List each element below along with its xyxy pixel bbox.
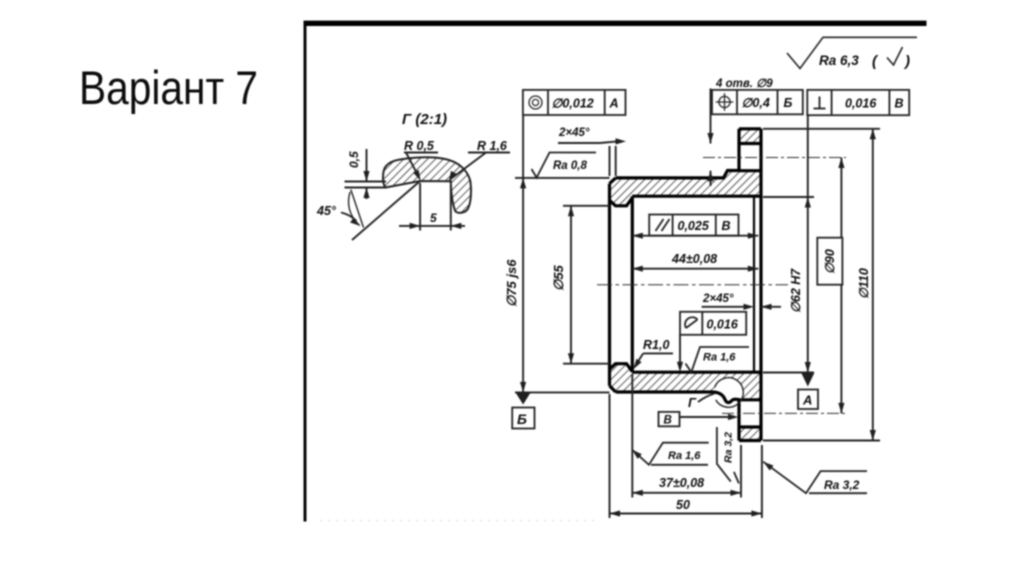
svg-text:37±0,08: 37±0,08 bbox=[659, 476, 704, 490]
dim Ø55 bbox=[563, 205, 610, 207]
svg-text:Ra 0,8: Ra 0,8 bbox=[553, 160, 587, 172]
bore Ø55 top edge with entry chamfers bbox=[610, 198, 633, 206]
bolt hole Ø9 dim arrows bbox=[710, 89, 712, 144]
datum Б triangle and box bbox=[516, 393, 531, 405]
roughness Ra 3,2 bottom right bbox=[761, 459, 773, 470]
svg-text:∅75 js6: ∅75 js6 bbox=[504, 259, 519, 307]
bolt hole bottom axis bbox=[722, 412, 846, 414]
main section hatched flange top strip bbox=[739, 129, 761, 144]
svg-text:45°: 45° bbox=[316, 204, 337, 218]
svg-text:5: 5 bbox=[430, 211, 437, 225]
svg-text:Г: Г bbox=[688, 395, 697, 410]
svg-text:∅110: ∅110 bbox=[857, 268, 871, 299]
dim Ø62 H7 with datum A bbox=[763, 196, 814, 198]
dim 50 bbox=[609, 394, 611, 518]
bolt hole bottom edges bbox=[739, 398, 761, 401]
bore Ø55 bottom edge with entry chamfers bbox=[610, 364, 633, 372]
svg-text:B: B bbox=[895, 97, 904, 111]
svg-text:(: ( bbox=[872, 53, 879, 70]
part outline bottom groove profile bbox=[712, 392, 739, 403]
detail 5 dimension bbox=[419, 183, 421, 231]
general roughness Ra 6,3 top right bbox=[787, 37, 917, 68]
tolerance frame parallelism 0,025 B bbox=[649, 215, 738, 236]
svg-text:A: A bbox=[802, 393, 812, 408]
svg-text:∅90: ∅90 bbox=[823, 249, 837, 274]
frame dimension line on Ø62 span bbox=[632, 235, 758, 237]
profile frame leader bbox=[679, 335, 681, 363]
svg-text:44±0,08: 44±0,08 bbox=[671, 252, 717, 266]
part outline top-left chamfer bbox=[610, 178, 616, 184]
roughness Ra 0,8 bbox=[532, 153, 597, 178]
svg-text:0,5: 0,5 bbox=[347, 151, 361, 168]
groove Г arc bbox=[715, 378, 744, 408]
svg-text:A: A bbox=[609, 97, 619, 111]
roughness Ra 1,6 in bore bbox=[686, 347, 750, 372]
svg-text:4 отв. ∅9: 4 отв. ∅9 bbox=[715, 78, 773, 90]
tolerance frame position Ø0,4 Б bbox=[712, 90, 803, 114]
detail 45° angle bbox=[352, 181, 420, 240]
groove Г white circle bbox=[714, 378, 744, 408]
tolerance frame concentricity Ø0,012 A bbox=[523, 90, 626, 115]
svg-text:B: B bbox=[722, 219, 731, 233]
tolerance frame profile 0,016 bbox=[680, 312, 746, 335]
flange bottom edge bbox=[739, 439, 761, 442]
bore chamfer edge line bbox=[753, 196, 755, 372]
flange right face bbox=[759, 129, 762, 441]
main section hatched bottom wall bbox=[610, 364, 762, 400]
svg-text:50: 50 bbox=[676, 498, 690, 512]
dim Ø90 boxed bbox=[840, 158, 842, 414]
dim Ø75 js6 bbox=[515, 177, 610, 179]
roughness Ra 3,2 rotated at flange face bbox=[717, 427, 731, 482]
svg-text:Ra 1,6: Ra 1,6 bbox=[703, 352, 736, 364]
svg-text:R1,0: R1,0 bbox=[643, 338, 669, 352]
svg-text:Ra 3,2: Ra 3,2 bbox=[723, 432, 735, 463]
svg-text:∅0,012: ∅0,012 bbox=[552, 97, 594, 111]
bore shoulder bbox=[631, 196, 634, 372]
svg-text:2×45°: 2×45° bbox=[558, 127, 590, 139]
svg-text:0,025: 0,025 bbox=[678, 219, 710, 233]
flange left face lower bbox=[737, 400, 740, 441]
svg-text:∅62 H7: ∅62 H7 bbox=[789, 268, 803, 313]
dim Ø110 bbox=[763, 128, 880, 130]
svg-text:∅55: ∅55 bbox=[551, 264, 566, 291]
svg-text:2×45°: 2×45° bbox=[702, 293, 734, 305]
main section hatched top wall bbox=[610, 171, 762, 206]
svg-text:Б: Б bbox=[517, 411, 527, 427]
part outline top surface bbox=[610, 129, 762, 441]
flange left face upper bbox=[737, 129, 740, 171]
main section hatched flange bottom strip bbox=[739, 427, 761, 441]
sheet faint bottom edge bbox=[320, 520, 600, 522]
svg-text:Ra 1,6: Ra 1,6 bbox=[668, 450, 701, 462]
frame leader to Ø75 bbox=[522, 115, 524, 178]
dim 37±0,08 bbox=[631, 374, 633, 498]
bolt hole top axis bbox=[703, 157, 846, 159]
svg-text:B: B bbox=[664, 415, 672, 427]
detail Г hatched section blob bbox=[383, 157, 471, 213]
svg-text:Г (2:1): Г (2:1) bbox=[402, 111, 447, 128]
datum B box with arrow bbox=[659, 412, 680, 426]
flange top edge bbox=[739, 127, 761, 130]
sheet border left line bbox=[304, 21, 307, 522]
part outline bottom surface bbox=[616, 390, 712, 393]
svg-text:0,016: 0,016 bbox=[845, 97, 877, 111]
svg-text:R 0,5: R 0,5 bbox=[404, 139, 435, 153]
bolt hole top edges bbox=[739, 142, 761, 145]
axis center line bbox=[597, 284, 788, 286]
svg-text:∅0,4: ∅0,4 bbox=[742, 96, 770, 110]
svg-text:0,016: 0,016 bbox=[707, 318, 739, 332]
svg-text:Ra 3,2: Ra 3,2 bbox=[824, 478, 860, 492]
bore Ø62 bottom edge bbox=[632, 371, 761, 374]
svg-text:Варіант 7: Варіант 7 bbox=[79, 61, 258, 114]
svg-text:Б: Б bbox=[784, 96, 793, 110]
svg-text:Ra 6,3: Ra 6,3 bbox=[819, 53, 859, 68]
bore Ø62 top edge bbox=[632, 195, 761, 198]
sheet border top thick line bbox=[304, 21, 927, 26]
part outline left face bbox=[608, 184, 611, 386]
part outline bottom-left chamfer bbox=[610, 386, 616, 392]
roughness Ra 1,6 lower left bbox=[630, 447, 642, 459]
tolerance frame perpendicularity 0,016 B bbox=[807, 90, 909, 115]
svg-text:R 1,6: R 1,6 bbox=[477, 139, 508, 153]
svg-text:): ) bbox=[903, 53, 910, 70]
